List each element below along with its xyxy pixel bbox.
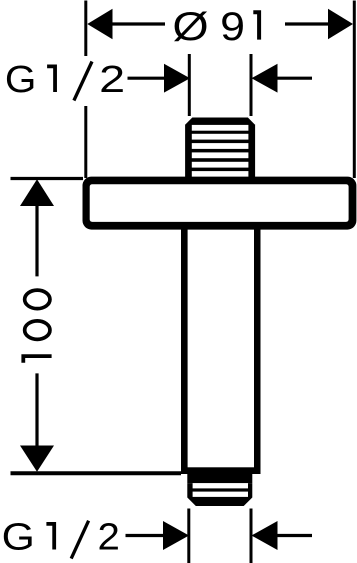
svg-text:2: 2: [99, 59, 125, 101]
svg-text:2: 2: [98, 517, 120, 559]
svg-text:9: 9: [220, 5, 245, 49]
svg-text:G: G: [5, 59, 37, 101]
svg-text:Ø: Ø: [172, 5, 208, 49]
svg-text:G: G: [2, 517, 35, 559]
